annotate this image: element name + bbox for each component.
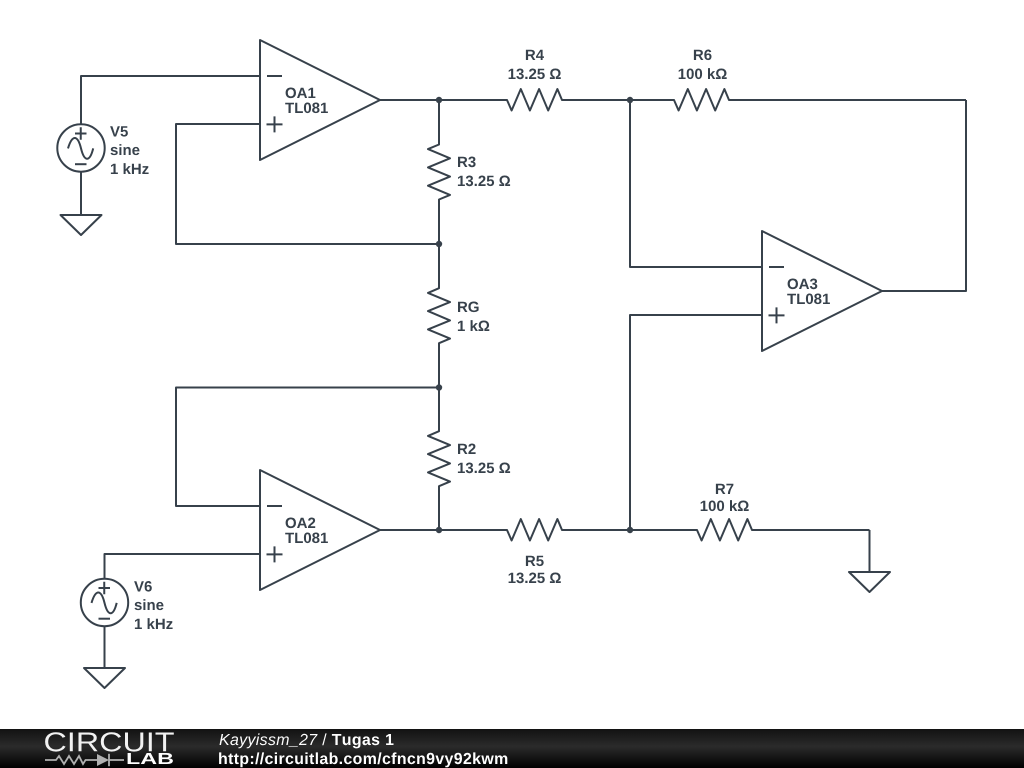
- RG value label: [458, 302, 489, 332]
- footer url: [219, 752, 507, 767]
- op-amp OA2: [260, 470, 380, 590]
- resistor RG: [428, 244, 450, 388]
- node OA2 output / R2 / R5: [436, 527, 442, 533]
- R5 value label: [509, 556, 561, 584]
- wire OA2 inverting input loop to RG/R2 node: [176, 388, 439, 507]
- ground R7: [849, 572, 890, 592]
- op-amp OA3: [762, 231, 882, 351]
- node R4 / R6 / OA3 inverting: [627, 97, 633, 103]
- wire R6 right side down to OA3 output: [882, 100, 966, 291]
- footer title username / project: [220, 733, 318, 748]
- node R5 / R7 / OA3 noninverting: [627, 527, 633, 533]
- op-amp OA1: [260, 40, 380, 160]
- wire OA3 noninverting input down to R5/R7 node: [630, 315, 762, 530]
- node R3 / RG / OA1 noninverting: [436, 241, 442, 247]
- op-amp OA3 label: [787, 279, 830, 305]
- resistor R5: [439, 519, 630, 541]
- R4 value label: [509, 50, 561, 79]
- R3 value label: [458, 157, 510, 187]
- ground V6: [84, 668, 125, 688]
- R7 value label: [701, 484, 749, 511]
- resistor R3: [428, 100, 450, 244]
- wire V5 top to OA1 inverting input: [81, 76, 260, 125]
- resistor R7: [630, 519, 870, 541]
- CircuitLab logo wordmark CIRCUIT: [45, 732, 174, 751]
- voltage source V6: [81, 579, 128, 626]
- wire V5 bottom to ground: [80, 172, 82, 216]
- CircuitLab logo wordmark LAB: [128, 753, 173, 764]
- wire R4/R6 node down to OA3 inverting input: [630, 100, 762, 267]
- wire V6 top to OA2 noninverting input: [105, 554, 261, 579]
- voltage source V5: [57, 124, 104, 171]
- op-amp OA1 label: [285, 88, 328, 114]
- CircuitLab logo resistor-diode glyph: [45, 754, 124, 766]
- resistor R2: [428, 388, 450, 531]
- wire OA1 noninverting input loop: [176, 124, 439, 244]
- R2 value label: [458, 444, 510, 474]
- wire R7 to ground: [869, 530, 871, 572]
- ground V5: [61, 215, 102, 235]
- wire OA2 output: [380, 529, 439, 531]
- wire OA1 output: [380, 99, 439, 101]
- node RG / R2 / OA2 inverting: [436, 384, 442, 390]
- node OA1 output / R3 / R4: [436, 97, 442, 103]
- wire V6 bottom to ground: [104, 626, 106, 668]
- V6 value label: [134, 581, 173, 629]
- V5 value label: [110, 126, 149, 174]
- resistor R4: [439, 89, 630, 111]
- R6 value label: [679, 50, 727, 80]
- op-amp OA2 label: [285, 518, 328, 544]
- resistor R6: [630, 89, 966, 111]
